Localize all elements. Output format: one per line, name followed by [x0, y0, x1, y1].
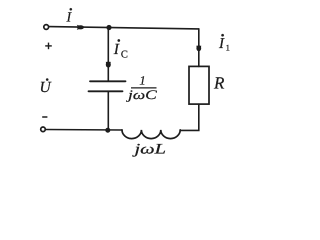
node top junction [107, 25, 111, 29]
inductor L coil [122, 130, 180, 139]
svg-text:R: R [213, 73, 225, 92]
arrow for current IC on branch [106, 62, 111, 68]
svg-text:1: 1 [139, 74, 145, 88]
svg-text:I: I [218, 36, 225, 52]
arrow for current I1 on right branch [196, 46, 201, 52]
svg-text:1: 1 [226, 42, 230, 52]
label impedance fraction bar [131, 87, 157, 89]
label minus sign [42, 116, 47, 118]
wire right branch upper [198, 29, 200, 67]
svg-text:C: C [121, 49, 128, 60]
wire inductor to right corner [180, 104, 199, 130]
node bottom junction [106, 128, 110, 132]
capacitor C top plate [90, 80, 126, 82]
svg-text:jωC: jωC [125, 87, 157, 102]
label plus sign [45, 43, 52, 50]
arrow for current I on top wire [77, 25, 85, 30]
wire capacitor branch lower [107, 91, 109, 130]
wire capacitor branch upper [107, 28, 109, 81]
terminal top-left [44, 25, 49, 30]
resistor R body [189, 66, 209, 104]
wire bottom (terminal to inductor) [46, 129, 122, 132]
capacitor C bottom plate [89, 90, 123, 92]
svg-text:I: I [66, 10, 73, 25]
svg-text:U: U [40, 79, 53, 96]
svg-text:I: I [113, 41, 120, 58]
terminal bottom-left [41, 127, 46, 132]
svg-text:jωL: jωL [132, 141, 166, 157]
wire top (terminal to corner) [49, 27, 199, 29]
